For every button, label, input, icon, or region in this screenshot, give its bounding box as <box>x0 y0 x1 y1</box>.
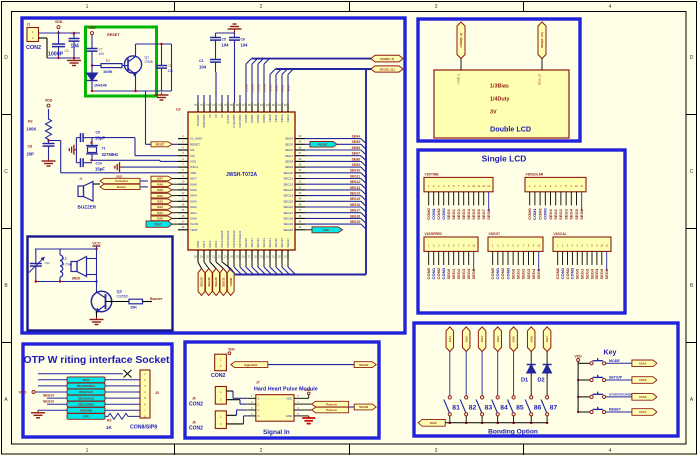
svg-text:Buzzer: Buzzer <box>150 297 163 301</box>
LCD connector V10/SPEED wires <box>428 251 430 265</box>
wire VSS row with sideways ground <box>120 166 123 168</box>
svg-text:V3: V3 <box>214 114 218 118</box>
svg-text:IOA0: IOA0 <box>157 218 163 221</box>
wire Q1 collector to top rail <box>135 44 137 57</box>
svg-text:V10/TIME: V10/TIME <box>425 173 439 177</box>
svg-text:V3/DGT: V3/DGT <box>489 232 501 236</box>
svg-text:SEG22: SEG22 <box>256 238 260 248</box>
wire C6 down to IC pin <box>234 40 236 103</box>
port IOA4 key <box>632 409 657 416</box>
svg-text:COM0..3: COM0..3 <box>457 73 461 84</box>
svg-text:C10: C10 <box>96 162 102 166</box>
wire right branch down <box>171 44 173 91</box>
svg-text:IOA6: IOA6 <box>157 183 163 186</box>
svg-text:VDD: VDD <box>574 354 582 358</box>
svg-text:J3: J3 <box>155 391 159 395</box>
wires IC top pins to COM bus <box>245 64 247 103</box>
capacitor C8 20P <box>43 143 55 145</box>
svg-text:SEG19: SEG19 <box>350 220 360 224</box>
svg-text:BZ/IOB7: BZ/IOB7 <box>196 114 200 125</box>
svg-text:SEG30: SEG30 <box>214 277 218 287</box>
svg-text:SEG26: SEG26 <box>280 238 284 248</box>
transistor Q2 <box>91 291 111 311</box>
svg-text:SEG16: SEG16 <box>283 205 293 209</box>
svg-text:SEG3: SEG3 <box>286 114 290 122</box>
svg-text:VDD: VDD <box>190 171 197 175</box>
svg-text:C11: C11 <box>45 261 51 265</box>
wire XI1 to IC <box>92 137 135 139</box>
svg-text:CON2: CON2 <box>26 45 41 51</box>
svg-text:IOA3: IOA3 <box>480 336 484 343</box>
svg-text:1: 1 <box>86 4 89 10</box>
bus SEG horizontal top <box>276 68 372 70</box>
svg-text:8R2K: 8R2K <box>72 277 81 281</box>
svg-text:1: 1 <box>86 448 89 454</box>
svg-text:BZB/IOB6: BZB/IOB6 <box>202 114 206 127</box>
svg-text:SEG18: SEG18 <box>350 214 360 218</box>
port COM[0..3] <box>371 55 403 62</box>
svg-text:IOC2: IOC2 <box>208 240 212 247</box>
resistor R2 100K <box>46 117 52 141</box>
svg-text:VSS: VSS <box>190 160 196 164</box>
port SEG24 right of SignalOut <box>354 362 376 368</box>
svg-text:104: 104 <box>168 69 174 73</box>
svg-text:COM0: COM0 <box>244 83 248 92</box>
crystal Y1 32768Hz <box>91 138 93 146</box>
wire J1 pin2 down <box>39 37 48 39</box>
net label Buzzer arrow <box>100 184 140 189</box>
svg-text:VLCD: VLCD <box>190 222 199 226</box>
LCD connector V30/SOLAR wires <box>529 192 531 206</box>
signal in section box <box>185 342 379 438</box>
svg-text:SET/UP: SET/UP <box>609 376 623 380</box>
svg-text:SEG24: SEG24 <box>268 238 272 248</box>
capacitor C4 104 <box>210 59 221 61</box>
svg-text:Y1: Y1 <box>102 147 106 151</box>
svg-text:VSS/GND: VSS/GND <box>80 409 93 413</box>
svg-text:VPP: VPP <box>83 415 89 419</box>
svg-text:SEG20: SEG20 <box>283 228 293 232</box>
svg-text:COM1: COM1 <box>250 83 254 92</box>
svg-text:C945: C945 <box>145 60 153 64</box>
svg-text:SEG7: SEG7 <box>352 152 361 156</box>
svg-text:SECLK/SCK: SECLK/SCK <box>78 396 94 400</box>
svg-text:IOA2: IOA2 <box>639 378 646 382</box>
svg-text:104: 104 <box>199 65 207 70</box>
svg-text:IOC0: IOC0 <box>196 240 200 247</box>
svg-text:100K: 100K <box>27 127 37 132</box>
svg-text:84: 84 <box>500 405 508 412</box>
svg-text:SEG0..23: SEG0..23 <box>538 73 542 85</box>
net label cyan on right row2 <box>310 142 337 148</box>
svg-text:XI0: XI0 <box>190 154 195 158</box>
svg-text:J8: J8 <box>192 421 196 425</box>
svg-text:SEG4: SEG4 <box>285 137 293 141</box>
diode D1 <box>527 364 536 366</box>
svg-text:32768Hz: 32768Hz <box>102 152 119 157</box>
svg-text:2: 2 <box>260 448 263 454</box>
wire SignalOut to SEG <box>268 364 354 366</box>
wires J6 J8 to module <box>226 390 233 392</box>
svg-text:20P: 20P <box>27 152 35 157</box>
ground above capacitors C5 C6 <box>234 29 236 33</box>
wire key vertical rail <box>577 362 579 413</box>
amplifier sub-box <box>28 237 173 331</box>
svg-text:J4: J4 <box>79 177 83 181</box>
svg-text:1N4148: 1N4148 <box>94 84 107 88</box>
svg-text:CON2: CON2 <box>189 426 203 432</box>
svg-text:3: 3 <box>435 4 438 10</box>
svg-text:87: 87 <box>550 405 558 412</box>
svg-text:TEST: TEST <box>82 378 89 382</box>
svg-text:IOC6/SEG30: IOC6/SEG30 <box>232 230 236 247</box>
svg-text:Bonding Option: Bonding Option <box>488 429 538 436</box>
svg-text:IOA2: IOA2 <box>464 336 468 343</box>
svg-text:1/3Bias: 1/3Bias <box>490 84 509 90</box>
connector J3 <box>140 370 150 418</box>
wire amplifier top rail <box>35 248 97 250</box>
svg-text:SEG0: SEG0 <box>268 84 272 92</box>
sideways ground left of crystal <box>74 149 77 151</box>
svg-text:Double LCD: Double LCD <box>490 125 531 134</box>
diode D1 1N4148 <box>91 66 93 74</box>
svg-text:SEG8: SEG8 <box>352 157 361 161</box>
net label SignalOut <box>231 362 268 368</box>
svg-text:SEG20: SEG20 <box>244 238 248 248</box>
svg-text:C3: C3 <box>65 49 69 53</box>
svg-text:85: 85 <box>516 405 524 412</box>
wires IC bottom pins to flags <box>197 260 199 263</box>
port IOA1 key <box>632 360 657 367</box>
svg-text:IOA3: IOA3 <box>639 395 646 399</box>
cyan net labels OTP <box>67 377 105 383</box>
svg-text:R1: R1 <box>106 59 110 63</box>
capacitor C9 15pF <box>76 137 80 139</box>
svg-text:OSC1: OSC1 <box>190 165 199 169</box>
svg-text:Pulse In: Pulse In <box>326 408 337 412</box>
double LCD body <box>434 70 569 138</box>
svg-text:RESET: RESET <box>156 143 165 147</box>
bonding bottom rail <box>445 422 547 424</box>
svg-text:CON8/SIP8: CON8/SIP8 <box>130 425 157 431</box>
connector J6 CON2 <box>215 387 226 405</box>
svg-text:VDD: VDD <box>286 397 292 401</box>
port SEG[0..31] <box>371 66 403 72</box>
svg-text:CON2: CON2 <box>211 373 226 379</box>
svg-text:SEG15: SEG15 <box>283 199 293 203</box>
svg-text:IOA0: IOA0 <box>190 217 197 221</box>
svg-text:Key: Key <box>604 350 617 357</box>
svg-text:SEG11: SEG11 <box>350 174 360 178</box>
svg-text:IOA5: IOA5 <box>157 189 163 192</box>
svg-text:1K: 1K <box>106 425 113 430</box>
svg-text:MODE: MODE <box>609 359 620 363</box>
resistor R4 10K <box>106 301 113 303</box>
svg-text:SEG12: SEG12 <box>283 182 293 186</box>
svg-text:TEST: TEST <box>154 222 162 226</box>
svg-text:SEG12: SEG12 <box>350 180 360 184</box>
svg-text:SEG24: SEG24 <box>359 363 368 367</box>
port IOA3 key <box>632 394 657 401</box>
svg-text:IOA6: IOA6 <box>190 182 197 186</box>
svg-text:SEG2: SEG2 <box>280 84 284 92</box>
sheet zone tick marks <box>174 1 176 11</box>
key switch MODE <box>578 362 590 364</box>
svg-text:SEG23: SEG23 <box>262 238 266 248</box>
svg-text:SEG9: SEG9 <box>285 165 293 169</box>
svg-text:COM0: COM0 <box>244 114 248 123</box>
svg-text:SEG27: SEG27 <box>286 238 290 248</box>
wire C5 to C4 <box>215 40 217 59</box>
svg-text:RESETB/RES: RESETB/RES <box>77 384 95 388</box>
svg-text:10K: 10K <box>130 306 137 310</box>
wire cap top rail <box>216 32 235 34</box>
svg-text:IOA4: IOA4 <box>157 195 163 198</box>
wire Q2 emitter to ground <box>96 312 98 318</box>
ground OTP <box>38 409 67 411</box>
key switch START/STOP(DOWN) <box>577 396 579 398</box>
svg-text:3V: 3V <box>490 110 497 116</box>
svg-text:V1_MOS: V1_MOS <box>190 137 202 141</box>
svg-text:3: 3 <box>435 448 438 454</box>
port SEG26 <box>354 404 376 410</box>
wires OTP left side <box>38 379 67 381</box>
diode D2 <box>543 364 552 366</box>
bonding option section box <box>414 323 678 436</box>
svg-text:IOC3: IOC3 <box>214 240 218 247</box>
svg-text:RESET: RESET <box>107 33 120 37</box>
svg-text:SEG6: SEG6 <box>352 146 361 150</box>
svg-text:S: S <box>258 414 260 418</box>
svg-text:SEG18: SEG18 <box>283 217 293 221</box>
trimmer capacitor CT <box>35 249 37 264</box>
IC U2 right pins <box>295 138 305 140</box>
capacitor C6 104 <box>229 37 240 39</box>
svg-text:IOA1: IOA1 <box>639 362 646 366</box>
ground under C8 <box>48 159 50 162</box>
wires flags to switches <box>449 352 451 396</box>
svg-text:U2: U2 <box>176 108 181 112</box>
svg-text:SEG8: SEG8 <box>486 208 491 219</box>
svg-text:IOC4/SEG28: IOC4/SEG28 <box>220 230 224 247</box>
wire R2 to C8 junction <box>48 141 50 143</box>
capacitor C1 104 <box>161 44 163 66</box>
main circuit section box <box>22 18 405 333</box>
svg-text:COM2: COM2 <box>256 114 260 123</box>
svg-text:SEG6: SEG6 <box>604 268 609 279</box>
flag SEG[0..31] double LCD <box>538 22 546 59</box>
svg-text:83: 83 <box>485 405 493 412</box>
svg-text:104: 104 <box>222 43 230 48</box>
wires speaker to rail <box>87 258 97 260</box>
svg-text:SEG10: SEG10 <box>350 169 360 173</box>
svg-text:C: C <box>4 169 8 175</box>
wire pulse to SEG26 <box>349 406 355 408</box>
crystal circuit ground rail <box>75 138 77 163</box>
svg-text:SEG14: SEG14 <box>43 394 54 398</box>
svg-text:J6: J6 <box>192 397 196 401</box>
svg-text:IOA1: IOA1 <box>157 212 163 215</box>
svg-text:C: C <box>258 402 260 406</box>
svg-text:D1: D1 <box>521 378 528 384</box>
svg-text:IOA6: IOA6 <box>529 336 533 343</box>
wire and cyan VSS label right row17 <box>305 229 312 231</box>
svg-text:IOA7: IOA7 <box>545 336 549 343</box>
svg-text:SEG21: SEG21 <box>250 238 254 248</box>
svg-text:4: 4 <box>609 4 612 10</box>
wire amplifier bottom rail <box>35 281 97 283</box>
svg-text:SEG13: SEG13 <box>283 188 293 192</box>
svg-text:SEG1: SEG1 <box>274 114 278 122</box>
ground under C1 <box>161 93 163 96</box>
svg-text:SEG14: SEG14 <box>283 194 293 198</box>
capacitor C7 104 <box>87 48 98 50</box>
flags below IC <box>198 269 205 296</box>
svg-text:V1: V1 <box>220 114 224 118</box>
svg-text:IOA4: IOA4 <box>190 194 197 198</box>
svg-text:SEG19: SEG19 <box>283 222 293 226</box>
svg-text:R2: R2 <box>28 120 33 124</box>
bus COM horizontal <box>252 58 372 60</box>
wire rail down to Q2 collector <box>96 249 98 292</box>
svg-text:COM2: COM2 <box>256 83 260 92</box>
wire C4 down to IC pin <box>215 62 217 72</box>
svg-text:V2: V2 <box>208 114 212 118</box>
svg-text:86: 86 <box>534 405 542 412</box>
svg-text:V10/SPEED: V10/SPEED <box>425 232 443 236</box>
net label PulseOut arrow <box>100 178 140 183</box>
net label TEST cyan <box>146 221 172 227</box>
svg-text:IOA7: IOA7 <box>190 177 197 181</box>
svg-text:SECLO/SDA: SECLO/SDA <box>78 402 94 406</box>
svg-text:D2: D2 <box>538 378 545 384</box>
capacitor C3 1000P <box>58 33 60 44</box>
svg-text:IOA1: IOA1 <box>448 336 452 343</box>
connector J5 CON2 <box>215 354 227 371</box>
svg-text:SEG13: SEG13 <box>350 186 360 190</box>
svg-text:VDD: VDD <box>228 348 235 352</box>
svg-text:C8550: C8550 <box>117 294 130 299</box>
svg-text:SEG[0..31]: SEG[0..31] <box>379 67 394 71</box>
LCD connector V3/DGT wires <box>492 251 494 265</box>
ground amplifier <box>96 317 98 320</box>
wires IC bottom pins to SEG bus <box>227 260 229 268</box>
svg-text:RESET: RESET <box>190 142 200 146</box>
wire J1 pin1 to VDD rail <box>39 32 81 34</box>
svg-text:SEG15: SEG15 <box>350 197 360 201</box>
svg-text:L1: L1 <box>63 257 67 261</box>
svg-text:COM[0..3]: COM[0..3] <box>459 33 463 47</box>
key switch SET/UP <box>577 379 579 381</box>
LCD connector V10/CAL wires <box>557 251 559 265</box>
connector J8 CON2 <box>215 411 226 429</box>
svg-text:IOA3: IOA3 <box>157 201 163 204</box>
svg-text:PULSE: PULSE <box>318 143 327 147</box>
svg-text:C: C <box>258 408 260 412</box>
svg-text:VSS: VSS <box>323 228 329 232</box>
double LCD section box <box>418 19 580 141</box>
svg-text:IOA1: IOA1 <box>190 211 197 215</box>
IC U2 top pins <box>197 103 199 112</box>
svg-text:SEG9: SEG9 <box>352 163 361 167</box>
svg-text:VLCD1: VLCD1 <box>226 114 230 124</box>
svg-text:D: D <box>4 55 8 61</box>
net labels IOA7-IOA0 arrows <box>151 176 172 181</box>
net label IOA0 bonding <box>418 419 445 426</box>
svg-text:D: D <box>690 55 694 61</box>
svg-text:Buzzer: Buzzer <box>117 185 127 189</box>
svg-text:SignalOut: SignalOut <box>244 363 257 367</box>
svg-text:2: 2 <box>260 4 263 10</box>
svg-text:SEG25: SEG25 <box>274 238 278 248</box>
capacitor C10 15pF <box>76 162 80 164</box>
net label Pulse In lower <box>302 409 312 411</box>
svg-text:SEG17: SEG17 <box>350 209 360 213</box>
bonding switches 81-87 <box>448 396 451 399</box>
svg-text:IOA7: IOA7 <box>157 178 163 181</box>
wire XI0 to IC <box>92 159 160 161</box>
wires IC right pins to SEG bus with labels <box>305 138 361 140</box>
svg-text:82: 82 <box>469 405 477 412</box>
svg-text:SEG7: SEG7 <box>285 154 293 158</box>
wire buzzer to labels <box>93 183 100 185</box>
bus SEG horizontal bottom <box>235 274 366 276</box>
svg-text:COM1: COM1 <box>250 114 254 123</box>
ground under J1 circuit <box>73 58 75 61</box>
inductor L1 <box>59 249 61 255</box>
svg-text:C1P/IOB4: C1P/IOB4 <box>238 114 242 127</box>
svg-text:SEG14: SEG14 <box>350 192 360 196</box>
svg-text:OTP W riting interface Socket: OTP W riting interface Socket <box>24 355 170 366</box>
svg-text:IOA0: IOA0 <box>430 421 437 425</box>
svg-text:IOC7/SEG31: IOC7/SEG31 <box>238 230 242 247</box>
svg-text:V10/CAL: V10/CAL <box>554 232 567 236</box>
svg-text:COM3: COM3 <box>262 114 266 123</box>
svg-text:VDDA/VCC: VDDA/VCC <box>79 390 94 394</box>
IC U2 left pins <box>178 138 188 140</box>
wire reset output down to IC pin 1 <box>145 91 147 144</box>
svg-text:SEG10: SEG10 <box>283 171 293 175</box>
svg-text:IOA5: IOA5 <box>512 336 516 343</box>
wire flag SEG to LCD <box>541 59 543 71</box>
svg-text:IOA2: IOA2 <box>190 205 197 209</box>
svg-text:JWSH-T072A: JWSH-T072A <box>226 172 258 178</box>
svg-text:SEG8: SEG8 <box>285 160 293 164</box>
wire buzzer arrows to IC column <box>140 180 148 182</box>
svg-text:SEG28: SEG28 <box>200 277 204 287</box>
svg-text:104: 104 <box>99 52 105 56</box>
wire bottom rail of reset circuit <box>92 90 172 92</box>
svg-text:VDD: VDD <box>45 99 53 103</box>
svg-text:SEG17: SEG17 <box>283 211 293 215</box>
green highlight box (reset circuit) <box>86 27 157 96</box>
key switch RESET <box>577 411 579 413</box>
svg-text:V30/SOLAR: V30/SOLAR <box>526 173 544 177</box>
svg-text:SEG13: SEG13 <box>43 400 54 404</box>
capacitor C5 104 <box>210 37 221 39</box>
svg-text:C5: C5 <box>222 38 226 42</box>
flag COM[0..3] double LCD <box>457 22 465 59</box>
svg-text:VDD: VDD <box>55 20 63 24</box>
svg-text:VDD: VDD <box>305 388 312 392</box>
svg-text:VDD: VDD <box>19 391 27 395</box>
svg-text:SEG26: SEG26 <box>359 405 368 409</box>
wire flag COM to LCD <box>460 59 462 71</box>
svg-text:SEG0: SEG0 <box>268 114 272 122</box>
svg-text:C4: C4 <box>199 59 203 63</box>
svg-text:RESET: RESET <box>609 408 622 412</box>
wire Q1 emitter to bottom rail <box>135 75 137 92</box>
